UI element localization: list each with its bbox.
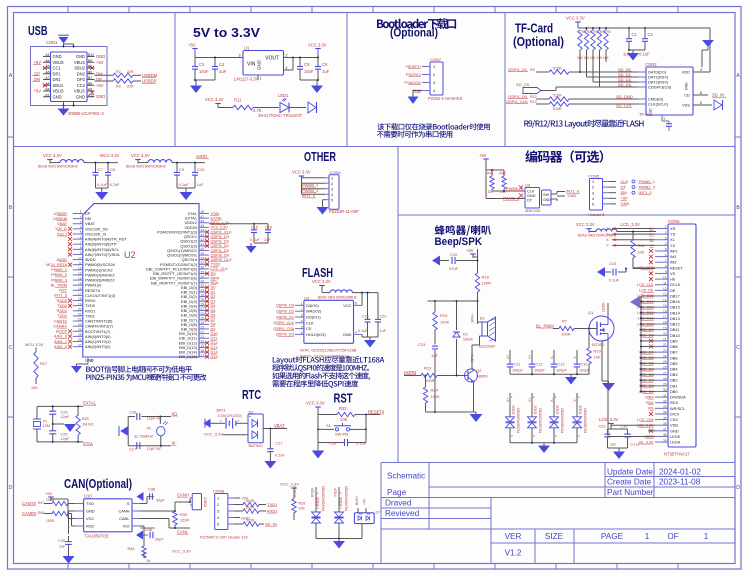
svg-text:100pF: 100pF <box>556 369 567 373</box>
svg-text:510R: 510R <box>553 94 562 98</box>
svg-text:10K: 10K <box>299 507 306 511</box>
svg-text:34: 34 <box>201 275 205 279</box>
svg-text:4.7uF: 4.7uF <box>110 182 121 187</box>
svg-text:13: 13 <box>78 272 82 276</box>
svg-text:10uF: 10uF <box>304 69 314 74</box>
svg-text:QSPI0_D0: QSPI0_D0 <box>276 304 294 308</box>
svg-text:C9: C9 <box>179 167 185 172</box>
svg-text:Q2: Q2 <box>476 368 482 373</box>
svg-text:INT1_0: INT1_0 <box>639 190 653 195</box>
svg-text:R45: R45 <box>500 172 506 176</box>
svg-text:31: 31 <box>663 394 667 398</box>
svg-text:0.1uF: 0.1uF <box>356 440 367 445</box>
svg-text:DCLK: DCLK <box>670 282 681 287</box>
svg-text:GND: GND <box>343 332 352 337</box>
svg-text:19: 19 <box>201 344 205 348</box>
svg-text:FLASH: FLASH <box>302 266 333 280</box>
svg-text:QSPI0_D3: QSPI0_D3 <box>276 333 294 337</box>
svg-text:ESD2: ESD2 <box>534 405 538 414</box>
svg-text:3: 3 <box>239 54 241 58</box>
svg-text:SS34: SS34 <box>463 337 474 342</box>
svg-text:SD_CMD: SD_CMD <box>616 94 633 99</box>
svg-text:GND: GND <box>257 59 262 70</box>
svg-text:TF-01S: TF-01S <box>639 112 653 117</box>
svg-text:U1: U1 <box>244 46 250 51</box>
svg-text:0.1uF: 0.1uF <box>97 182 108 187</box>
svg-text:35: 35 <box>663 416 667 420</box>
svg-text:45: 45 <box>201 224 205 228</box>
svg-text:1uF: 1uF <box>264 238 271 242</box>
svg-text:R44: R44 <box>487 172 493 176</box>
svg-text:22R: 22R <box>127 85 134 89</box>
svg-text:41: 41 <box>201 243 205 247</box>
svg-text:DO(IO1): DO(IO1) <box>306 315 321 320</box>
svg-text:HOLD(IO3): HOLD(IO3) <box>306 332 326 337</box>
svg-text:R5: R5 <box>607 30 611 34</box>
svg-text:SD_CS: SD_CS <box>516 82 530 87</box>
svg-text:15: 15 <box>663 304 667 308</box>
svg-text:LED1: LED1 <box>278 93 289 98</box>
svg-text:100R: 100R <box>46 519 55 523</box>
svg-text:RTC: RTC <box>242 388 261 402</box>
svg-text:4: 4 <box>286 66 288 70</box>
svg-text:19: 19 <box>663 326 667 330</box>
svg-text:10: 10 <box>663 276 667 280</box>
svg-text:20: 20 <box>201 340 205 344</box>
svg-text:SW: SW <box>543 193 550 197</box>
svg-text:USBDP: USBDP <box>142 79 157 84</box>
svg-text:DP1: DP1 <box>53 71 62 76</box>
svg-text:Part Number: Part Number <box>607 488 654 497</box>
svg-text:BEAD 0603 600R100MHz: BEAD 0603 600R100MHz <box>578 234 617 238</box>
svg-text:25: 25 <box>78 333 82 337</box>
svg-text:P2254-1-04-W-8.5: P2254-1-04-W-8.5 <box>428 96 463 101</box>
svg-text:XL: XL <box>670 237 676 242</box>
svg-text:1: 1 <box>433 65 435 69</box>
svg-text:VBUS: VBUS <box>74 89 85 94</box>
svg-text:DB17: DB17 <box>670 293 680 298</box>
svg-text:C15: C15 <box>251 226 258 230</box>
svg-text:P2254R-11-02P Header 1x5: P2254R-11-02P Header 1x5 <box>200 536 248 540</box>
svg-text:U10: U10 <box>84 494 92 499</box>
svg-text:30pF: 30pF <box>155 538 164 542</box>
svg-text:LCD_DE: LCD_DE <box>639 289 654 293</box>
svg-text:1: 1 <box>665 225 667 229</box>
svg-text:1uF: 1uF <box>197 182 204 187</box>
svg-text:+5V: +5V <box>188 43 196 48</box>
svg-text:C39: C39 <box>58 539 65 543</box>
svg-text:B8: B8 <box>88 82 92 86</box>
svg-text:C11: C11 <box>514 363 521 367</box>
svg-text:5: 5 <box>592 203 594 207</box>
svg-text:R3: R3 <box>116 85 121 89</box>
svg-text:NT35THVA17: NT35THVA17 <box>664 452 690 457</box>
svg-text:3: 3 <box>433 81 435 85</box>
svg-text:R7: R7 <box>562 319 568 324</box>
svg-text:CON3: CON3 <box>203 497 207 507</box>
svg-text:48: 48 <box>90 359 94 363</box>
svg-text:1: 1 <box>301 302 303 306</box>
svg-text:1: 1 <box>217 497 219 501</box>
svg-text:24: 24 <box>201 321 205 325</box>
svg-text:29: 29 <box>201 298 205 302</box>
svg-text:(Optional): (Optional) <box>513 35 564 49</box>
svg-text:1: 1 <box>260 77 262 81</box>
svg-text:B1: B1 <box>45 93 49 97</box>
svg-text:MCU 3.3V: MCU 3.3V <box>25 342 44 347</box>
svg-text:C26: C26 <box>129 411 136 415</box>
svg-text:DB5: DB5 <box>670 361 678 366</box>
svg-text:32: 32 <box>663 399 667 403</box>
svg-text:LM1117-3.3V: LM1117-3.3V <box>234 77 259 82</box>
svg-text:Revieved: Revieved <box>385 509 420 518</box>
svg-text:PESD0402M5D5: PESD0402M5D5 <box>322 486 326 511</box>
svg-text:B7: B7 <box>88 76 92 80</box>
svg-text:VCC 3.3V: VCC 3.3V <box>292 170 311 175</box>
svg-text:R23: R23 <box>424 366 432 371</box>
svg-text:BL_PWM: BL_PWM <box>536 323 554 328</box>
svg-text:24: 24 <box>78 328 82 332</box>
svg-text:RXD1#: RXD1# <box>293 486 297 497</box>
svg-text:Y+: Y+ <box>528 355 532 360</box>
svg-text:Header 5: Header 5 <box>588 212 605 217</box>
svg-text:100pF: 100pF <box>512 369 523 373</box>
svg-text:D7: D7 <box>376 511 381 515</box>
svg-text:DB0: DB0 <box>670 389 678 394</box>
svg-text:0.1uF: 0.1uF <box>275 454 285 458</box>
svg-text:11: 11 <box>663 281 667 285</box>
svg-text:R13: R13 <box>530 100 537 104</box>
svg-text:CS: CS <box>306 326 312 331</box>
svg-text:1M NC: 1M NC <box>82 423 94 427</box>
svg-text:VBAT: VBAT <box>274 423 285 428</box>
svg-text:C1: C1 <box>632 32 638 37</box>
svg-text:QSPI0_CLK: QSPI0_CLK <box>273 321 294 325</box>
svg-text:CD: CD <box>684 93 690 98</box>
svg-text:20: 20 <box>78 307 82 311</box>
svg-text:46: 46 <box>201 219 205 223</box>
svg-text:CON2: CON2 <box>645 62 657 67</box>
svg-text:TJA1050T(3): TJA1050T(3) <box>84 534 109 539</box>
svg-text:BEAD 0603 600R100MHZ: BEAD 0603 600R100MHZ <box>318 296 357 300</box>
svg-text:23: 23 <box>663 349 667 353</box>
svg-text:BUSY: BUSY <box>355 495 359 505</box>
svg-text:VOUT: VOUT <box>265 56 279 62</box>
svg-text:DT: DT <box>621 184 627 189</box>
svg-text:Beep/SPK: Beep/SPK <box>435 236 483 248</box>
svg-text:+5V: +5V <box>33 89 41 94</box>
svg-text:TXD: TXD <box>86 501 94 506</box>
svg-text:510R: 510R <box>246 506 255 510</box>
svg-text:10uF: 10uF <box>199 69 209 74</box>
svg-text:8: 8 <box>355 301 357 305</box>
svg-text:+5V: +5V <box>621 196 629 201</box>
svg-text:18: 18 <box>78 297 82 301</box>
svg-text:100pF: 100pF <box>534 369 545 373</box>
svg-text:TXD#: TXD# <box>334 488 338 497</box>
svg-text:DB13: DB13 <box>670 316 680 321</box>
svg-text:4: 4 <box>80 226 82 230</box>
svg-text:CANL: CANL <box>119 516 130 521</box>
svg-text:2: 2 <box>433 73 435 77</box>
svg-text:RD#: RD# <box>646 401 654 405</box>
svg-text:R11: R11 <box>234 98 242 103</box>
svg-text:5: 5 <box>217 523 219 527</box>
svg-text:2: 2 <box>286 54 288 58</box>
svg-text:PESD0402M5D5: PESD0402M5D5 <box>584 408 588 433</box>
svg-text:SD_CLK: SD_CLK <box>616 103 632 108</box>
svg-text:PWM0_1: PWM0_1 <box>302 182 319 187</box>
svg-text:CANH: CANH <box>118 509 129 514</box>
svg-text:GND: GND <box>527 194 536 198</box>
svg-text:LEDK: LEDK <box>602 302 606 312</box>
svg-text:40: 40 <box>201 247 205 251</box>
svg-text:VCC 3.3V: VCC 3.3V <box>306 401 325 406</box>
svg-text:DB14: DB14 <box>670 310 681 315</box>
svg-text:C5: C5 <box>304 62 310 67</box>
svg-text:QSPI0_D1: QSPI0_D1 <box>276 315 294 319</box>
svg-text:DB10: DB10 <box>670 333 681 338</box>
svg-text:26: 26 <box>78 338 82 342</box>
svg-text:CON7: CON7 <box>430 57 442 62</box>
svg-text:QSPI1_D1: QSPI1_D1 <box>508 67 528 72</box>
svg-text:2: 2 <box>665 231 667 235</box>
svg-text:20: 20 <box>663 332 667 336</box>
svg-text:1: 1 <box>80 210 82 214</box>
svg-text:C10: C10 <box>197 167 205 172</box>
svg-text:6: 6 <box>80 236 82 240</box>
svg-text:DB15: DB15 <box>670 305 680 310</box>
svg-text:22: 22 <box>201 330 205 334</box>
svg-text:RST: RST <box>334 392 353 406</box>
svg-text:47: 47 <box>201 215 205 219</box>
svg-text:3: 3 <box>301 314 303 318</box>
svg-text:14: 14 <box>78 277 82 281</box>
svg-text:39: 39 <box>663 439 667 443</box>
svg-text:DP2: DP2 <box>77 77 86 82</box>
svg-text:5: 5 <box>301 325 303 329</box>
svg-text:C7: C7 <box>98 167 104 172</box>
svg-text:CAN(Optional): CAN(Optional) <box>64 477 132 491</box>
svg-text:CDDAT3(CS): CDDAT3(CS) <box>648 85 672 90</box>
svg-text:10K: 10K <box>638 251 645 255</box>
svg-text:RESET#: RESET# <box>368 409 385 414</box>
svg-text:3.3V(CR1220): 3.3V(CR1220) <box>218 414 243 418</box>
svg-text:YU: YU <box>670 243 676 248</box>
svg-text:R48: R48 <box>38 511 44 515</box>
svg-text:10K: 10K <box>594 355 601 360</box>
svg-text:+5V: +5V <box>466 248 474 253</box>
svg-text:BEAD 0603 600R100MHZ: BEAD 0603 600R100MHZ <box>38 165 78 169</box>
svg-text:34: 34 <box>663 411 667 415</box>
svg-text:RXD: RXD <box>86 524 94 529</box>
svg-text:10K: 10K <box>31 386 38 390</box>
svg-text:0.1uF: 0.1uF <box>250 238 260 242</box>
svg-text:21: 21 <box>201 335 205 339</box>
svg-text:1: 1 <box>331 176 333 180</box>
svg-text:32.768KHZ: 32.768KHZ <box>134 435 154 439</box>
svg-text:DB7: DB7 <box>670 350 678 355</box>
svg-text:C27: C27 <box>276 442 283 446</box>
svg-text:21: 21 <box>78 313 82 317</box>
svg-text:8: 8 <box>700 91 702 95</box>
svg-text:VBUS: VBUS <box>74 60 85 65</box>
svg-text:12pF NC: 12pF NC <box>147 447 162 451</box>
svg-text:NOR: GD25Q128E/XT25F128B: NOR: GD25Q128E/XT25F128B <box>300 348 357 353</box>
svg-text:28: 28 <box>663 377 667 381</box>
svg-text:VBUS: VBUS <box>53 89 64 94</box>
svg-text:VCC_3.3V: VCC_3.3V <box>280 482 299 487</box>
svg-text:VCC 3.3V: VCC 3.3V <box>308 43 327 48</box>
svg-text:P2254R-11-05P: P2254R-11-05P <box>329 209 359 214</box>
svg-text:1: 1 <box>645 532 650 541</box>
svg-text:Schematic: Schematic <box>387 472 425 481</box>
svg-text:16: 16 <box>78 287 82 291</box>
svg-text:35: 35 <box>201 270 205 274</box>
svg-text:CON6: CON6 <box>668 219 680 224</box>
svg-text:C12: C12 <box>536 363 543 367</box>
svg-text:QSPI1_CLK: QSPI1_CLK <box>506 99 528 104</box>
svg-text:SD_IN: SD_IN <box>712 93 724 98</box>
svg-text:QSPI0_D2: QSPI0_D2 <box>276 310 294 314</box>
svg-text:13: 13 <box>663 293 667 297</box>
svg-text:5: 5 <box>665 248 667 252</box>
svg-text:27: 27 <box>201 307 205 311</box>
svg-text:R46: R46 <box>128 547 135 551</box>
svg-text:U3: U3 <box>304 296 310 301</box>
svg-text:6: 6 <box>301 331 303 335</box>
svg-text:26: 26 <box>201 312 205 316</box>
svg-text:A8: A8 <box>45 82 49 86</box>
svg-text:12pF: 12pF <box>61 415 70 419</box>
svg-text:2024-01-02: 2024-01-02 <box>659 468 701 477</box>
svg-text:C3: C3 <box>199 62 205 67</box>
svg-text:38: 38 <box>663 433 667 437</box>
svg-text:C17: C17 <box>129 448 136 452</box>
svg-text:BUZZER: BUZZER <box>479 344 495 349</box>
svg-text:CLK: CLK <box>306 320 314 325</box>
svg-text:2009B-UCAF001-X: 2009B-UCAF001-X <box>68 111 104 116</box>
svg-text:CC2: CC2 <box>77 83 86 88</box>
svg-text:DN1: DN1 <box>53 77 62 82</box>
svg-text:HORN: HORN <box>404 370 416 375</box>
svg-text:2: 2 <box>331 182 333 186</box>
svg-text:DN2: DN2 <box>77 71 86 76</box>
svg-text:30: 30 <box>201 293 205 297</box>
svg-text:2: 2 <box>301 308 303 312</box>
svg-text:19: 19 <box>78 302 82 306</box>
svg-text:33: 33 <box>663 405 667 409</box>
svg-text:SBU1: SBU1 <box>53 83 64 88</box>
svg-text:C6: C6 <box>322 62 328 67</box>
svg-text:+5V: +5V <box>45 491 53 496</box>
svg-text:R2: R2 <box>116 70 121 74</box>
svg-text:CON5: CON5 <box>588 174 600 179</box>
svg-text:C22: C22 <box>380 315 387 319</box>
svg-text:5: 5 <box>331 198 333 202</box>
svg-text:DB11: DB11 <box>670 327 679 332</box>
svg-text:0.1uF: 0.1uF <box>639 52 650 57</box>
svg-text:D15: D15 <box>211 354 218 359</box>
svg-text:6: 6 <box>700 101 702 105</box>
svg-text:EXTAL: EXTAL <box>83 401 97 406</box>
svg-text:2023-11-08: 2023-11-08 <box>659 478 701 487</box>
svg-text:LEDA: LEDA <box>670 440 681 445</box>
svg-text:CANRX: CANRX <box>22 511 37 516</box>
svg-text:GND: GND <box>76 54 85 59</box>
svg-text:X2: X2 <box>147 427 152 431</box>
svg-text:100K: 100K <box>431 394 441 399</box>
svg-text:100R: 100R <box>561 332 571 337</box>
svg-text:GND: GND <box>543 198 551 202</box>
svg-text:4: 4 <box>355 330 357 334</box>
svg-text:B12: B12 <box>88 53 94 57</box>
svg-text:VCC_3.3V: VCC_3.3V <box>204 432 223 437</box>
svg-text:AVDD: AVDD <box>196 154 207 159</box>
svg-text:27: 27 <box>663 371 667 375</box>
svg-text:36: 36 <box>663 422 667 426</box>
svg-text:BL_3.3V: BL_3.3V <box>639 440 654 444</box>
svg-text:PESD0402M5D5: PESD0402M5D5 <box>561 408 565 433</box>
svg-text:S1: S1 <box>326 423 332 428</box>
svg-text:TXD1: TXD1 <box>267 502 278 507</box>
svg-text:3: 3 <box>592 191 594 195</box>
svg-text:4: 4 <box>433 89 435 93</box>
svg-text:ESD8: ESD8 <box>556 405 560 414</box>
svg-text:SD_D3: SD_D3 <box>618 82 632 87</box>
svg-text:DB16: DB16 <box>670 299 680 304</box>
svg-text:MW-040: MW-040 <box>525 208 541 213</box>
svg-text:C24: C24 <box>418 342 426 347</box>
svg-text:Draved: Draved <box>385 499 412 508</box>
svg-text:RESET*: RESET* <box>406 64 421 69</box>
svg-text:PSAOCK: PSAOCK <box>404 80 421 85</box>
svg-text:PESD0402M5D5: PESD0402M5D5 <box>517 408 521 433</box>
svg-text:31: 31 <box>201 289 205 293</box>
svg-text:R17: R17 <box>40 362 47 366</box>
svg-text:IM2: IM2 <box>670 260 677 265</box>
svg-text:510R: 510R <box>246 499 255 503</box>
svg-text:C20: C20 <box>450 252 458 257</box>
svg-text:26: 26 <box>663 366 667 370</box>
svg-text:22: 22 <box>78 318 82 322</box>
svg-text:1: 1 <box>704 532 709 541</box>
svg-text:33: 33 <box>201 280 205 284</box>
svg-text:1uF: 1uF <box>380 329 387 333</box>
svg-text:DB2: DB2 <box>670 378 678 383</box>
svg-text:VBUS: VBUS <box>53 60 64 65</box>
svg-text:VCC 3.3V: VCC 3.3V <box>566 16 585 21</box>
svg-text:WR(IO2): WR(IO2) <box>306 309 322 314</box>
svg-text:SD_IN: SD_IN <box>265 521 277 526</box>
svg-text:29: 29 <box>663 383 667 387</box>
svg-text:1uF: 1uF <box>59 545 66 549</box>
svg-text:VDD: VDD <box>682 70 690 75</box>
svg-text:17: 17 <box>201 353 205 357</box>
svg-text:CLK: CLK <box>621 179 629 184</box>
svg-text:4: 4 <box>331 193 333 197</box>
svg-text:C21: C21 <box>362 315 369 319</box>
svg-text:21: 21 <box>663 338 667 342</box>
svg-text:510R: 510R <box>553 107 562 111</box>
svg-text:25: 25 <box>201 316 205 320</box>
svg-text:IMO: IMO <box>670 248 677 253</box>
svg-text:X1: X1 <box>43 420 48 424</box>
svg-text:2: 2 <box>217 503 219 507</box>
svg-text:28: 28 <box>201 303 205 307</box>
svg-text:2: 2 <box>592 186 594 190</box>
svg-text:4: 4 <box>217 516 219 520</box>
